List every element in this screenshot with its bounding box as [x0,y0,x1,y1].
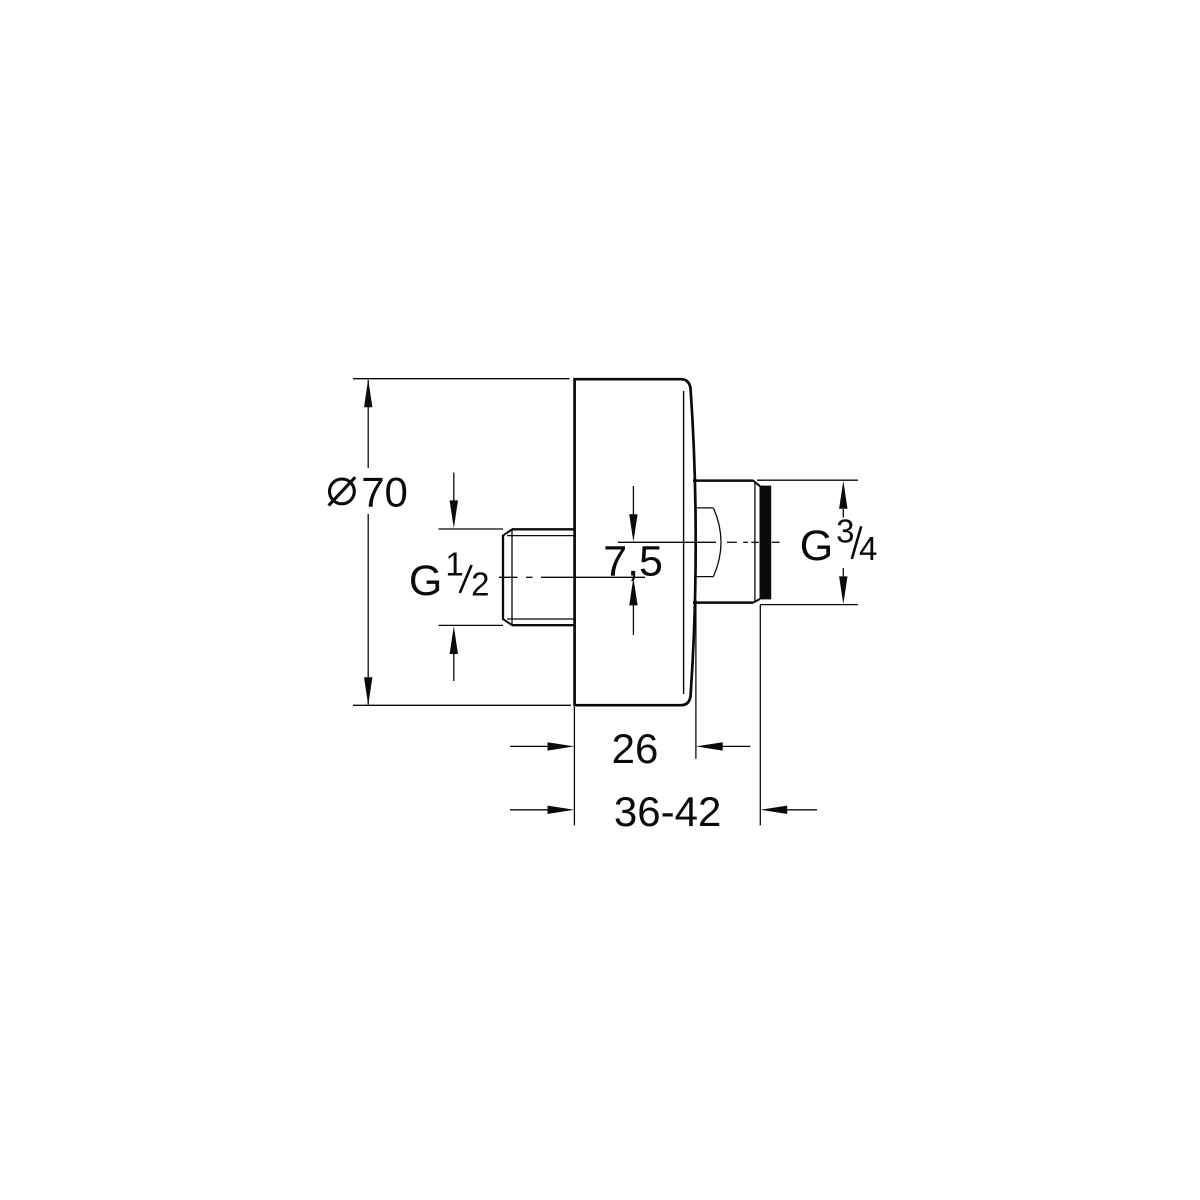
G1/2 stud root top [507,535,575,537]
svg-text:G: G [800,522,833,570]
36-42 arrow right-pointing [548,806,575,814]
7,5 arrow up [632,604,634,636]
svg-text:7,5: 7,5 [603,538,663,586]
G1/2 axis centerline [499,576,645,578]
bore bottom line [696,576,714,578]
G3/4 label fraction slash [852,526,861,559]
G1/2 stud root bottom [507,618,575,620]
G1/2 stud end face [502,535,504,620]
G3/4 socket bottom edge [693,601,753,604]
G1/2 extension line bottom [439,624,504,626]
26 dimension line left tail [510,745,549,747]
36-42 arrow left-pointing [760,806,787,814]
svg-text:G: G [409,557,442,605]
dia70 extension line bottom [353,704,571,706]
G1/2 stud chamfer ring [511,530,513,625]
7,5 arrow down [632,486,634,516]
dia70 dimension line lower [367,514,369,705]
G1/2 stud chamfer bottom [503,619,513,625]
G3/4 socket face line [754,482,756,602]
dia symbol slash [329,477,356,505]
svg-text:1: 1 [445,545,463,582]
36-42 dimension line left tail [510,809,549,811]
gasket black band [760,486,772,600]
svg-text:2: 2 [471,566,489,603]
36-42 dimension line right tail [787,809,818,811]
G1/2 stud crest bottom [512,624,575,626]
G3/4 socket chamfer bottom [753,599,760,603]
G3/4 socket top edge [693,479,753,482]
flange body outline [575,379,696,705]
bore top line [696,507,714,509]
dia symbol circle [330,479,355,504]
svg-text:70: 70 [361,469,408,516]
26 arrow left-pointing [696,742,723,750]
26 dimension line right tail [722,745,751,747]
bore back arc [713,508,721,577]
G1/2 arrow down [453,473,455,503]
dia70 arrow up [364,379,372,407]
G1/2 label fraction slash [460,565,472,593]
svg-text:4: 4 [859,530,877,567]
svg-text:3: 3 [836,513,854,550]
36-42 right extension line [759,605,761,826]
G1/2 stud crest top [512,528,575,530]
G1/2 arrow up [453,653,455,682]
G3/4 arrow down [842,568,844,577]
26 left extension line (body left, shared with 36-42) [573,707,575,825]
G3/4 extension line top [757,479,858,481]
G3/4 extension line bottom [761,604,859,606]
dia70 arrow down [364,677,372,705]
svg-text:26: 26 [612,725,659,772]
G3/4 arrow up [842,509,844,518]
G1/2 stud chamfer top [503,529,513,536]
G3/4 socket chamfer top [753,481,760,487]
26 arrow right-pointing [548,742,575,750]
26 right extension line [695,600,697,759]
flange face edge line [683,391,685,694]
svg-text:36-42: 36-42 [614,788,721,835]
G3/4 axis centerline [618,541,780,543]
dia70 extension line top [353,378,570,380]
dia70 dimension line upper [367,380,369,468]
G1/2 extension line top [439,528,504,530]
